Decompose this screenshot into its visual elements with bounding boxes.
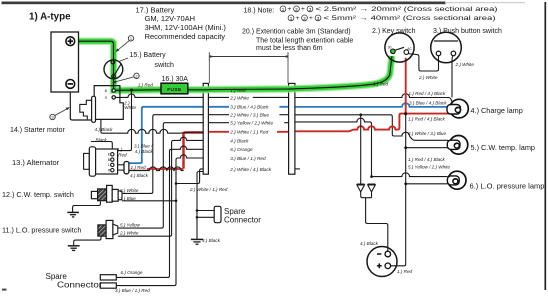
- svg-text:2: 2: [303, 16, 306, 21]
- right side wire labels: [189, 62, 474, 274]
- svg-text:1.) Red / 4.) Black: 1.) Red / 4.) Black: [408, 116, 445, 121]
- callout 1: [128, 36, 133, 41]
- connector bar left (node): [203, 83, 208, 174]
- battery switch 15: [104, 60, 123, 79]
- wire temp switch ground: [73, 202, 101, 212]
- wire green over bars: [203, 86, 209, 93]
- alternator 2-pin connector: [124, 162, 129, 174]
- svg-text:1.) Red: 1.) Red: [230, 88, 246, 93]
- spare connector (bottom left) plugs: [100, 275, 116, 280]
- svg-text:FUSE: FUSE: [167, 87, 182, 93]
- wire 1.Red battery tap to alternator B: [114, 90, 131, 159]
- buzzer plug connector bottom: [367, 247, 397, 277]
- svg-text:17.) Battery: 17.) Battery: [136, 5, 175, 14]
- svg-text:GM, 12V-70AH: GM, 12V-70AH: [145, 14, 195, 23]
- wire row5 5.Yellow/2.White LO switch via diode2 to LO lamp: [118, 118, 448, 228]
- svg-text:5.) Yellow: 5.) Yellow: [120, 223, 141, 228]
- wire row2 2.White starter solenoid: [115, 94, 452, 104]
- svg-text:Black: Black: [96, 137, 108, 142]
- wire temp switch 3.Blue: [122, 200, 176, 202]
- wire row3 3.Blue alternator L to charge lamp: [129, 103, 448, 163]
- connector bar right (node): [289, 83, 295, 174]
- note 17 battery: [136, 5, 227, 41]
- svg-text:2.) White / 3.) Blue: 2.) White / 3.) Blue: [407, 131, 446, 136]
- wire push button drop joins lamp4 top: [451, 56, 454, 98]
- page bottom-left mark: [2, 289, 7, 291]
- svg-text:+: +: [301, 6, 305, 13]
- svg-text:4.) Black: 4.) Black: [130, 173, 149, 178]
- svg-text:3.) Blue / 1.) Red: 3.) Blue / 1.) Red: [115, 288, 150, 293]
- svg-text:< 2.5mm² → 20mm² (Cross sectio: < 2.5mm² → 20mm² (Cross sectional area): [316, 6, 498, 13]
- wire alternator R to plug: [114, 169, 124, 171]
- svg-text:30: 30: [388, 46, 392, 50]
- battery - terminal: [66, 80, 75, 89]
- svg-text:3.) Blue / 4.) Black: 3.) Blue / 4.) Black: [409, 101, 447, 106]
- wire row4 2.White/3.Blue temp switch to CW lamp: [122, 115, 450, 194]
- wire battery positive green feed (1.Red main): [74, 41, 392, 90]
- wire row8 6.Orange spare riser: [116, 146, 203, 277]
- ground (LO switch): [68, 246, 80, 251]
- wire row6 red 2.White/1.Red key switch feed: [129, 58, 450, 169]
- wire lamp5 bottom feed: [406, 147, 448, 149]
- ground (temp switch): [67, 212, 79, 217]
- wire lamp6 bottom feed: [406, 183, 448, 185]
- svg-text:2.) White: 2.) White: [229, 95, 249, 100]
- svg-text:4.) Black: 4.) Black: [230, 138, 249, 143]
- LO pressure switch S2: [98, 220, 118, 238]
- svg-text:switch: switch: [155, 62, 175, 69]
- svg-text:must be less than 6m: must be less than 6m: [256, 45, 323, 52]
- wire starter 4.Black with loom coil: [101, 119, 203, 133]
- svg-text:2.) White / 1.) Red: 2.) White / 1.) Red: [189, 187, 228, 192]
- wire row9 3.Blue/1.Red spare riser: [116, 155, 203, 286]
- svg-text:1.) Red: 1.) Red: [373, 81, 389, 86]
- svg-text:1.) Red: 1.) Red: [138, 82, 154, 87]
- note 18 formula line 1: [280, 6, 497, 22]
- svg-text:3.) Blue /: 3.) Blue /: [134, 143, 153, 148]
- svg-text:4.) Black: 4.) Black: [135, 149, 154, 154]
- svg-text:3.) Blue / 1.) Red: 3.) Blue / 1.) Red: [230, 156, 266, 161]
- svg-text:15.) Battery: 15.) Battery: [130, 52, 167, 59]
- wire ground lead from left bar bottom 4.Black: [197, 172, 203, 239]
- svg-text:3HM, 12V-100AH (Mini.): 3HM, 12V-100AH (Mini.): [145, 23, 227, 32]
- svg-text:2.) White: 2.) White: [455, 62, 475, 67]
- svg-text:Recommended capacity: Recommended capacity: [145, 32, 226, 41]
- svg-text:5.) C.W. temp. lamp: 5.) C.W. temp. lamp: [471, 143, 535, 152]
- svg-text:< 5mm² → 40mm² (Cross sectiona: < 5mm² → 40mm² (Cross sectional area): [324, 15, 496, 22]
- starter terminals B S: [112, 89, 115, 92]
- svg-text:Red: Red: [118, 152, 127, 157]
- left side wire labels: [95, 82, 154, 292]
- starter motor 14: [94, 86, 123, 120]
- svg-text:4.) Black: 4.) Black: [95, 127, 114, 132]
- svg-text:2.) White: 2.) White: [119, 188, 139, 193]
- wire battery negative to starter body: [70, 88, 94, 120]
- svg-text:11.) L.O. pressure switch: 11.) L.O. pressure switch: [2, 226, 81, 235]
- LO pressure lamp 6: [447, 171, 466, 189]
- svg-text:2.) White / 1.) Red: 2.) White / 1.) Red: [229, 130, 268, 135]
- svg-text:20.) Extention cable 3m (Stand: 20.) Extention cable 3m (Standard): [242, 29, 351, 36]
- svg-text:2.) White: 2.) White: [418, 75, 438, 80]
- svg-text:The total length extention cab: The total length extention cable: [256, 37, 353, 44]
- svg-text:3.) Push button switch: 3.) Push button switch: [433, 28, 502, 35]
- fuse 16 30A: [161, 83, 188, 94]
- wire LO switch ground: [74, 236, 101, 245]
- svg-text:1.): 1.): [117, 147, 123, 152]
- key switch 2: [385, 33, 414, 62]
- wire 2.White key switch to push button: [407, 54, 439, 72]
- CW temp switch S1: [91, 185, 122, 202]
- wire row7 4.Black LO 2.White riser: [118, 137, 203, 236]
- alternator U1 body: [84, 147, 118, 176]
- page top border: [2, 2, 446, 5]
- wire lamp4 bottom red continuation labels row: [359, 112, 407, 185]
- svg-text:1: 1: [290, 16, 293, 21]
- wire alternator E terminal Black: [91, 142, 112, 153]
- harness row labels: [229, 88, 284, 172]
- CW temp lamp 5: [447, 136, 468, 155]
- svg-text:Connector: Connector: [224, 216, 261, 225]
- svg-text:13.) Alternator: 13.) Alternator: [12, 158, 60, 167]
- svg-text:1.) Red / 4.) Black: 1.) Red / 4.) Black: [408, 157, 445, 162]
- wire alternator L to plug: [114, 164, 124, 166]
- svg-text:+: +: [296, 15, 300, 22]
- svg-text:14.) Starter motor: 14.) Starter motor: [10, 127, 66, 134]
- note 20 extension cable: [242, 29, 353, 52]
- svg-text:4.) Charge lamp: 4.) Charge lamp: [471, 106, 523, 115]
- svg-text:+: +: [288, 6, 292, 13]
- svg-text:1) A-type: 1) A-type: [29, 12, 71, 23]
- svg-text:3.) Blue: 3.) Blue: [120, 196, 136, 201]
- wire diode1 branch from row4: [360, 115, 362, 184]
- diode D1: [357, 184, 365, 192]
- svg-text:L: L: [108, 163, 110, 167]
- svg-text:2.) White / 4.) Black: 2.) White / 4.) Black: [229, 167, 272, 172]
- push button switch 3: [431, 32, 462, 63]
- page right border: [544, 2, 546, 290]
- note 18 formula line 2: [288, 15, 294, 21]
- svg-text:1: 1: [282, 7, 285, 12]
- svg-text:4.) Black: 4.) Black: [360, 241, 379, 246]
- alternator terminals E B L R: [111, 153, 114, 172]
- battery + terminal: [66, 37, 75, 46]
- svg-text:+: +: [309, 15, 313, 22]
- svg-text:2: 2: [295, 7, 298, 12]
- callout 3: [50, 114, 55, 119]
- ground (4.Black mid): [191, 239, 203, 244]
- wire alternator pair loom coil 4.Black: [129, 167, 184, 171]
- svg-text:16.) 30A: 16.) 30A: [162, 76, 189, 83]
- spare connector (mid): [197, 211, 214, 218]
- wire diode join to minus terminal: [361, 192, 388, 251]
- svg-text:6.) L.O. pressure lamp: 6.) L.O. pressure lamp: [470, 182, 545, 191]
- charge lamp 4: [447, 99, 468, 118]
- svg-text:1.) Red: 1.) Red: [131, 165, 147, 170]
- svg-text:6.) Orange: 6.) Orange: [121, 270, 143, 275]
- diode D2: [368, 184, 376, 192]
- svg-text:1.) Red / 4.) Black: 1.) Red / 4.) Black: [409, 91, 446, 96]
- svg-text:6.) Orange: 6.) Orange: [230, 147, 253, 152]
- svg-text:3: 3: [309, 7, 312, 12]
- svg-text:12.) C.W. temp. switch: 12.) C.W. temp. switch: [2, 190, 74, 199]
- svg-text:1.) Red: 1.) Red: [397, 269, 413, 274]
- svg-text:4.) Black: 4.) Black: [202, 238, 221, 243]
- svg-text:2.) Key switch: 2.) Key switch: [372, 28, 416, 35]
- svg-text:3.) Blue / 4.) Black: 3.) Blue / 4.) Black: [230, 105, 269, 110]
- svg-text:5.) Yellow / 2.) White: 5.) Yellow / 2.) White: [408, 164, 450, 169]
- callout 2: [134, 73, 139, 78]
- svg-text:3: 3: [317, 16, 320, 21]
- svg-text:AC: AC: [407, 47, 412, 51]
- svg-text:5.) Yellow / 2.) White: 5.) Yellow / 2.) White: [230, 121, 273, 126]
- battery 17: [51, 32, 79, 92]
- wire row10 2.White/1.Red wrap under bar: [176, 169, 203, 184]
- svg-text:18.) Note:: 18.) Note:: [244, 7, 275, 14]
- svg-text:2.) White / 3.) Blue: 2.) White / 3.) Blue: [229, 113, 269, 118]
- wire common 1.Red/4.Black vertical to plug: [391, 114, 406, 266]
- svg-text:Connector: Connector: [57, 281, 102, 290]
- svg-text:Spare: Spare: [224, 207, 246, 216]
- svg-text:White: White: [124, 105, 136, 110]
- extension cable dimension bracket: [209, 52, 288, 83]
- svg-text:2.) White: 2.) White: [119, 231, 139, 236]
